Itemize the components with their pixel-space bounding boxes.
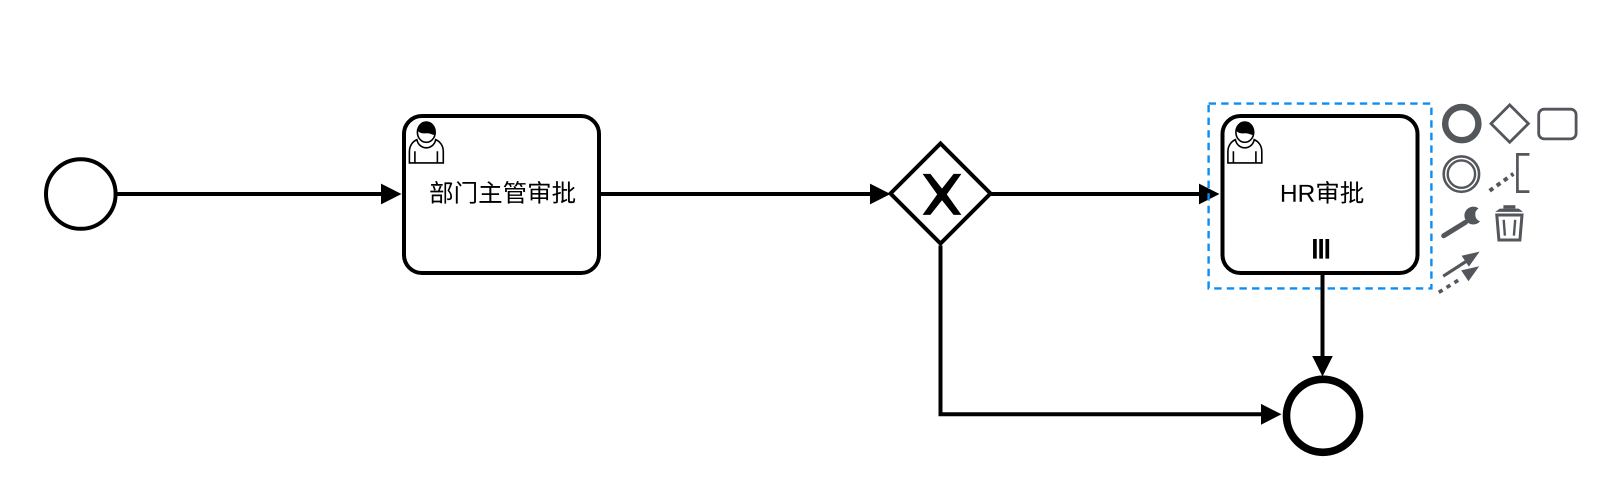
context pad: intermediate event entry: [1444, 156, 1479, 191]
sequence flow: gateway to end: [941, 246, 1282, 425]
end event: [1287, 379, 1360, 452]
context pad: end event entry: [1445, 107, 1478, 140]
exclusive gateway: [891, 144, 991, 244]
sequence flow: HR task to end: [1312, 275, 1333, 377]
context pad: delete entry: [1495, 205, 1523, 240]
context pad: gateway entry: [1491, 105, 1528, 142]
sequence flow: start to task1: [116, 184, 402, 205]
context pad: wrench entry: [1444, 207, 1480, 236]
context pad: text annotation entry: [1490, 154, 1530, 191]
sequence flow: gateway to HR task: [991, 184, 1220, 205]
sequence flow: task1 to gateway: [601, 184, 891, 205]
context pad: connect entry: [1439, 252, 1480, 293]
user task: HR审批 (selected): [1223, 116, 1418, 273]
context pad: task entry: [1539, 109, 1576, 139]
selection outline: [1209, 104, 1432, 289]
start event: [46, 159, 116, 229]
gateway X marker: [923, 174, 962, 215]
multi-instance parallel marker: [1315, 239, 1327, 259]
user task: 部门主管审批: [404, 116, 599, 273]
